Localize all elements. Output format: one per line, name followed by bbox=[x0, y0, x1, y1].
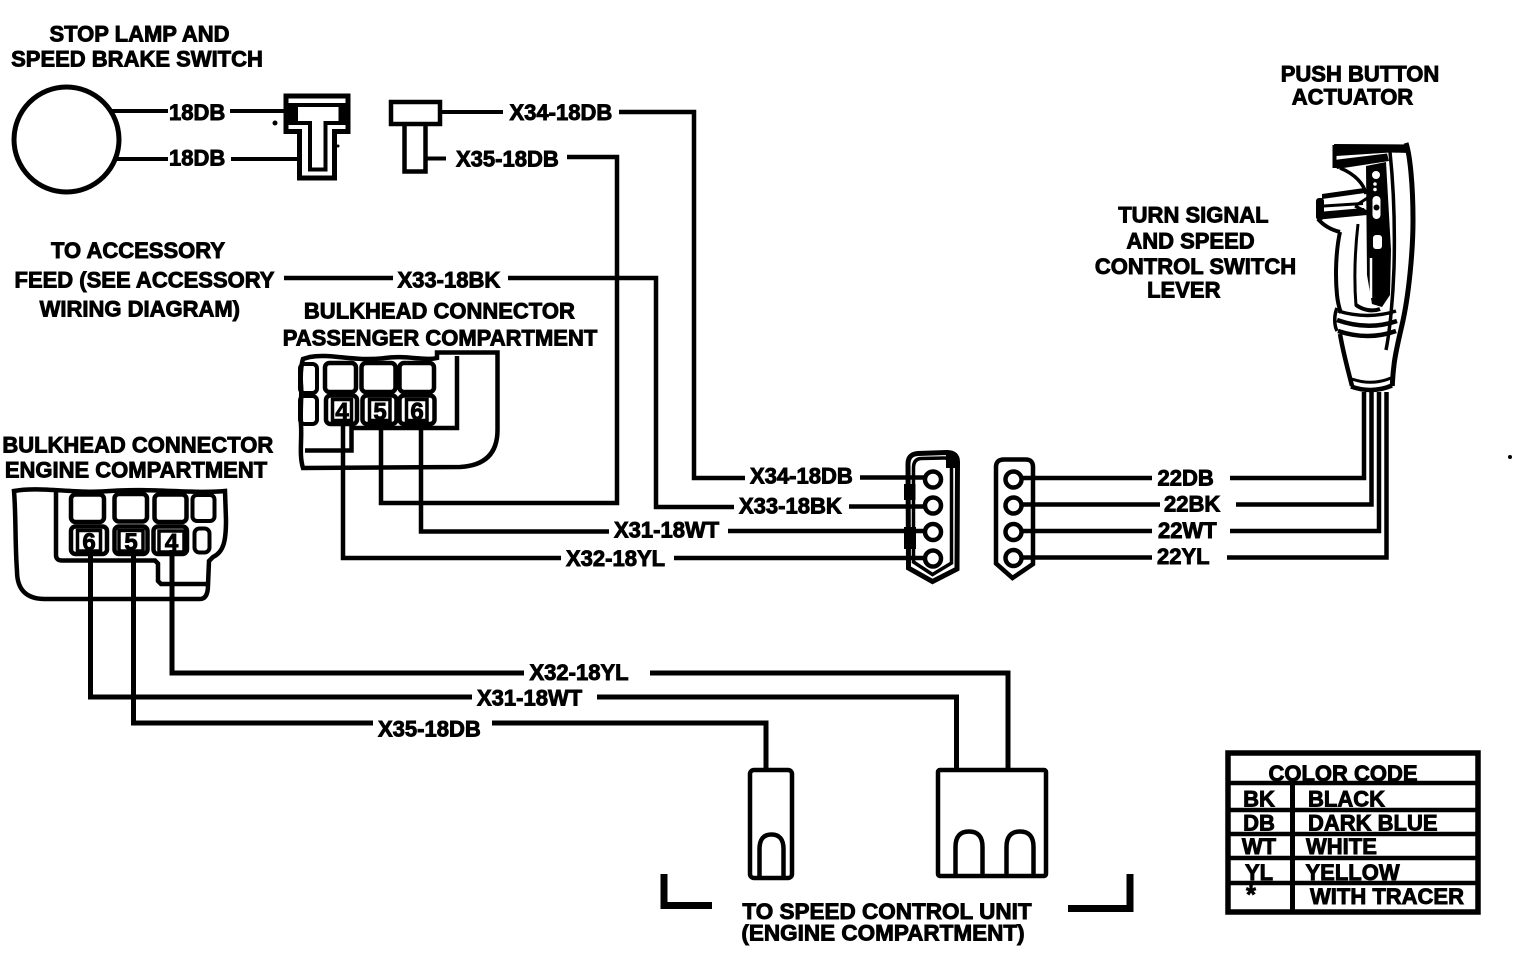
svg-text:4: 4 bbox=[335, 399, 349, 426]
wire X33-18BK second label to connector bbox=[849, 504, 926, 509]
svg-text:22BK: 22BK bbox=[1164, 492, 1220, 517]
passenger cell top 1 bbox=[325, 363, 356, 392]
svg-text:WITH TRACER: WITH TRACER bbox=[1310, 884, 1464, 909]
svg-text:X34-18DB: X34-18DB bbox=[750, 463, 853, 488]
wire circle to 18DB lower bbox=[113, 157, 168, 161]
lever knob mid line bbox=[1324, 204, 1363, 207]
engine cell 5 outer bbox=[115, 527, 148, 555]
color code table divider bbox=[1290, 783, 1295, 912]
svg-text:ENGINE COMPARTMENT: ENGINE COMPARTMENT bbox=[5, 458, 268, 483]
turn signal lever head dash detail bbox=[1357, 149, 1374, 152]
passenger cell top 3 bbox=[400, 363, 435, 392]
connector plug X34/X35 stem bbox=[405, 124, 426, 172]
engine cell 5 number box bbox=[119, 531, 143, 552]
wire X32-18YL bottom to speed control unit bbox=[650, 673, 1008, 770]
stop lamp and speed brake switch (circle) bbox=[14, 87, 119, 192]
svg-text:22YL: 22YL bbox=[1157, 544, 1210, 569]
turn signal lever right outer edge bbox=[1392, 143, 1413, 386]
svg-text:WIRING DIAGRAM): WIRING DIAGRAM) bbox=[40, 297, 240, 322]
female connector pin 1 bbox=[1006, 472, 1022, 488]
lever taper left edge bbox=[1340, 334, 1352, 386]
svg-text:BULKHEAD CONNECTOR: BULKHEAD CONNECTOR bbox=[304, 299, 575, 324]
svg-text:5: 5 bbox=[373, 399, 386, 426]
color code table row line 2 bbox=[1228, 832, 1478, 837]
male connector pin 1 bbox=[925, 472, 941, 488]
passenger partial cell bottom-left bbox=[300, 396, 317, 424]
slot black dot in hook bbox=[1374, 205, 1380, 211]
wire 18DB upper to connector bbox=[230, 109, 287, 113]
male connector pin 3 bbox=[925, 524, 941, 540]
wire circle to 18DB upper bbox=[110, 109, 168, 113]
wire X33-18BK down to second label bbox=[508, 278, 734, 507]
connector plug X34/X35 top rect bbox=[391, 102, 440, 124]
male connector pin 2 bbox=[925, 498, 941, 514]
turn signal lever head left edge bbox=[1333, 145, 1337, 168]
color code table outer box bbox=[1228, 753, 1478, 912]
wire X32-18YL label to connector bbox=[674, 556, 926, 561]
bulkhead connector passenger inner step bbox=[305, 356, 457, 451]
male connector dark wall upper bbox=[904, 484, 916, 500]
male connector dark wall lower bbox=[904, 527, 916, 549]
svg-text:X33-18BK: X33-18BK bbox=[398, 267, 501, 292]
color code table row line 3 bbox=[1228, 856, 1478, 861]
slot white dot 1 bbox=[1373, 182, 1377, 186]
wire X34-18DB second label to connector bbox=[860, 475, 926, 480]
color code table row line 1 bbox=[1228, 808, 1478, 813]
lever knob point upper bbox=[1355, 197, 1369, 206]
engine partial cell bottom right bbox=[195, 529, 210, 553]
lever knob point lower bbox=[1355, 206, 1369, 213]
wire engine pin 6 to X31-18WT bottom label bbox=[91, 550, 473, 697]
wire pin 4 to X32-18YL label bbox=[343, 419, 561, 558]
passenger partial cell top-left bbox=[300, 364, 317, 393]
connector plug dark fill left bbox=[288, 103, 297, 125]
passenger cell 5 outer bbox=[363, 396, 397, 425]
wire engine pin 4 to X32-18YL bottom label bbox=[172, 550, 524, 673]
connector plug inner outline bbox=[296, 105, 342, 170]
bulkhead connector engine outline bbox=[14, 489, 226, 599]
svg-text:X33-18BK: X33-18BK bbox=[739, 493, 842, 518]
male connector dark corner bbox=[946, 455, 956, 468]
lever knob end cap bbox=[1316, 198, 1324, 220]
svg-text:BLACK: BLACK bbox=[1308, 786, 1385, 811]
male connector outer outline bbox=[908, 453, 958, 582]
svg-text:AND SPEED: AND SPEED bbox=[1126, 229, 1254, 254]
svg-text:DARK BLUE: DARK BLUE bbox=[1308, 811, 1438, 836]
lever collar left bump bbox=[1335, 308, 1337, 331]
engine cell top 2 bbox=[115, 494, 148, 522]
svg-text:4: 4 bbox=[165, 530, 179, 557]
svg-text:PUSH BUTTON: PUSH BUTTON bbox=[1281, 61, 1440, 86]
wire X34-18DB down to second label bbox=[619, 112, 745, 478]
svg-text:5: 5 bbox=[124, 529, 137, 556]
speed control unit connector body bbox=[938, 770, 1046, 876]
passenger cell 6 number box bbox=[407, 400, 428, 421]
engine cell 4 number box bbox=[159, 531, 184, 552]
connector plug (double outline T) outer bbox=[286, 96, 348, 178]
lever collar arc 2 bbox=[1337, 320, 1397, 326]
bracket left bbox=[664, 874, 712, 906]
svg-text:18DB: 18DB bbox=[169, 100, 225, 125]
lever grip center contour bbox=[1355, 224, 1358, 306]
stray dot 2 bbox=[273, 121, 278, 126]
svg-text:TURN SIGNAL: TURN SIGNAL bbox=[1118, 203, 1268, 228]
female connector pin 2 bbox=[1006, 498, 1022, 514]
connector plug dark fill right bbox=[339, 103, 349, 125]
svg-text:STOP LAMP AND: STOP LAMP AND bbox=[49, 22, 229, 47]
passenger cell 6 outer bbox=[400, 396, 435, 425]
lever collar arc 1 bbox=[1338, 311, 1396, 316]
female connector outline bbox=[996, 460, 1033, 579]
bulkhead connector engine inner step bbox=[56, 492, 206, 584]
svg-text:BK: BK bbox=[1243, 786, 1275, 811]
wire X31-18WT label to connector bbox=[728, 529, 926, 534]
svg-text:COLOR CODE: COLOR CODE bbox=[1268, 761, 1417, 786]
svg-text:X31-18WT: X31-18WT bbox=[477, 686, 583, 711]
male connector pin 4 bbox=[925, 551, 941, 567]
speed control unit connector prong 1 bbox=[956, 832, 983, 876]
svg-text:ACTUATOR: ACTUATOR bbox=[1292, 84, 1414, 109]
svg-text:DB: DB bbox=[1243, 811, 1275, 836]
passenger cell top 2 bbox=[362, 363, 396, 392]
female connector pin 3 bbox=[1006, 524, 1022, 540]
engine cell top 3 bbox=[155, 495, 187, 523]
wire female pin2 to 22BK label bbox=[1021, 502, 1160, 507]
lever knob bottom band bbox=[1318, 208, 1367, 220]
wire 18DB lower to connector stem bbox=[231, 157, 302, 161]
slot white hole 1 bbox=[1372, 171, 1380, 179]
engine cell 4 outer bbox=[154, 527, 188, 555]
slot white dot 2 bbox=[1373, 188, 1377, 192]
engine partial cell top right bbox=[193, 495, 215, 521]
bracket right bbox=[1068, 874, 1130, 909]
svg-text:*: * bbox=[1246, 881, 1256, 909]
svg-text:PASSENGER COMPARTMENT: PASSENGER COMPARTMENT bbox=[283, 326, 598, 351]
turn signal lever head under band bbox=[1334, 154, 1389, 170]
svg-text:LEVER: LEVER bbox=[1147, 278, 1220, 303]
svg-text:TO ACCESSORY: TO ACCESSORY bbox=[51, 238, 225, 263]
wire stub stem to X35-18DB label bbox=[426, 157, 446, 161]
svg-text:X34-18DB: X34-18DB bbox=[510, 100, 613, 125]
wire female pin1 to 22DB label bbox=[1021, 476, 1152, 481]
svg-text:FEED (SEE ACCESSORY: FEED (SEE ACCESSORY bbox=[15, 267, 275, 292]
lever shadow under slot bbox=[1356, 305, 1380, 310]
male connector inner outline bbox=[914, 458, 952, 575]
svg-text:WT: WT bbox=[1242, 834, 1277, 859]
wire 22YL label to lever bbox=[1227, 392, 1387, 558]
lever collar arc 3 bbox=[1338, 331, 1396, 336]
svg-text:6: 6 bbox=[410, 399, 423, 426]
engine cell 6 outer bbox=[71, 527, 107, 555]
wire X31-18WT bottom to speed control unit bbox=[597, 697, 957, 770]
svg-text:WHITE: WHITE bbox=[1306, 834, 1377, 859]
lever knob top band bbox=[1322, 188, 1365, 199]
svg-text:X35-18DB: X35-18DB bbox=[456, 147, 559, 172]
lever bottom cap arc 1 bbox=[1352, 378, 1391, 382]
passenger cell 5 number box bbox=[370, 400, 391, 421]
wire engine pin 5 to X35-18DB bottom label bbox=[134, 550, 374, 723]
lever grip left edge bbox=[1336, 232, 1341, 313]
svg-text:6: 6 bbox=[82, 529, 95, 556]
svg-text:SPEED BRAKE SWITCH: SPEED BRAKE SWITCH bbox=[11, 46, 263, 71]
svg-text:18DB: 18DB bbox=[169, 146, 225, 171]
wire accessory feed to X33-18BK label bbox=[284, 276, 393, 281]
svg-text:CONTROL SWITCH: CONTROL SWITCH bbox=[1095, 254, 1296, 279]
wire 22BK label to lever bbox=[1236, 392, 1372, 505]
color code table header line bbox=[1228, 781, 1478, 786]
stray dot 3 bbox=[337, 145, 340, 148]
female connector pin 4 bbox=[1006, 550, 1022, 566]
lever below knob curve bbox=[1318, 219, 1340, 232]
turn signal lever inner right contour bbox=[1386, 152, 1394, 350]
svg-text:X32-18YL: X32-18YL bbox=[530, 660, 629, 685]
stray dot 1 bbox=[1508, 455, 1512, 459]
svg-text:X31-18WT: X31-18WT bbox=[614, 518, 720, 543]
wire female pin3 to 22WT label bbox=[1021, 529, 1152, 534]
slot white hook bbox=[1373, 196, 1381, 219]
svg-text:YELLOW: YELLOW bbox=[1306, 860, 1400, 885]
wire X35-18DB bottom to small connector bbox=[492, 723, 766, 770]
wire female pin4 to 22YL label bbox=[1021, 555, 1152, 560]
svg-text:X32-18YL: X32-18YL bbox=[566, 546, 665, 571]
engine cell top 1 bbox=[71, 495, 104, 523]
bulkhead connector passenger outline bbox=[301, 353, 498, 469]
color code table row line 4 bbox=[1228, 881, 1478, 886]
wire 22DB label to lever bbox=[1230, 392, 1364, 478]
speed control unit connector prong 2 bbox=[1007, 832, 1034, 876]
wire X35-18DB down and left to pin 5 bbox=[381, 157, 617, 503]
turn signal lever push button slot bbox=[1366, 162, 1391, 307]
passenger cell 4 number box bbox=[333, 400, 352, 421]
engine cell 6 number box bbox=[78, 531, 101, 552]
passenger cell 4 outer bbox=[326, 396, 357, 425]
wire 22WT label to lever bbox=[1230, 392, 1379, 531]
svg-text:BULKHEAD CONNECTOR: BULKHEAD CONNECTOR bbox=[2, 433, 273, 458]
slot white window bbox=[1373, 235, 1382, 249]
wire pin 6 to X31-18WT label bbox=[421, 419, 609, 532]
speed control small connector prong bbox=[760, 835, 784, 878]
svg-text:22WT: 22WT bbox=[1158, 518, 1217, 543]
lever grip face curve bbox=[1340, 168, 1366, 194]
svg-text:X35-18DB: X35-18DB bbox=[378, 716, 481, 741]
turn signal lever head top band bbox=[1334, 144, 1409, 156]
svg-text:22DB: 22DB bbox=[1158, 466, 1214, 491]
lever bottom cap arc 2 bbox=[1351, 386, 1392, 391]
speed control small connector body bbox=[750, 770, 792, 878]
slot white slit bbox=[1370, 258, 1373, 298]
wire connector to X34-18DB label bbox=[440, 110, 503, 114]
svg-text:(ENGINE COMPARTMENT): (ENGINE COMPARTMENT) bbox=[741, 921, 1024, 946]
